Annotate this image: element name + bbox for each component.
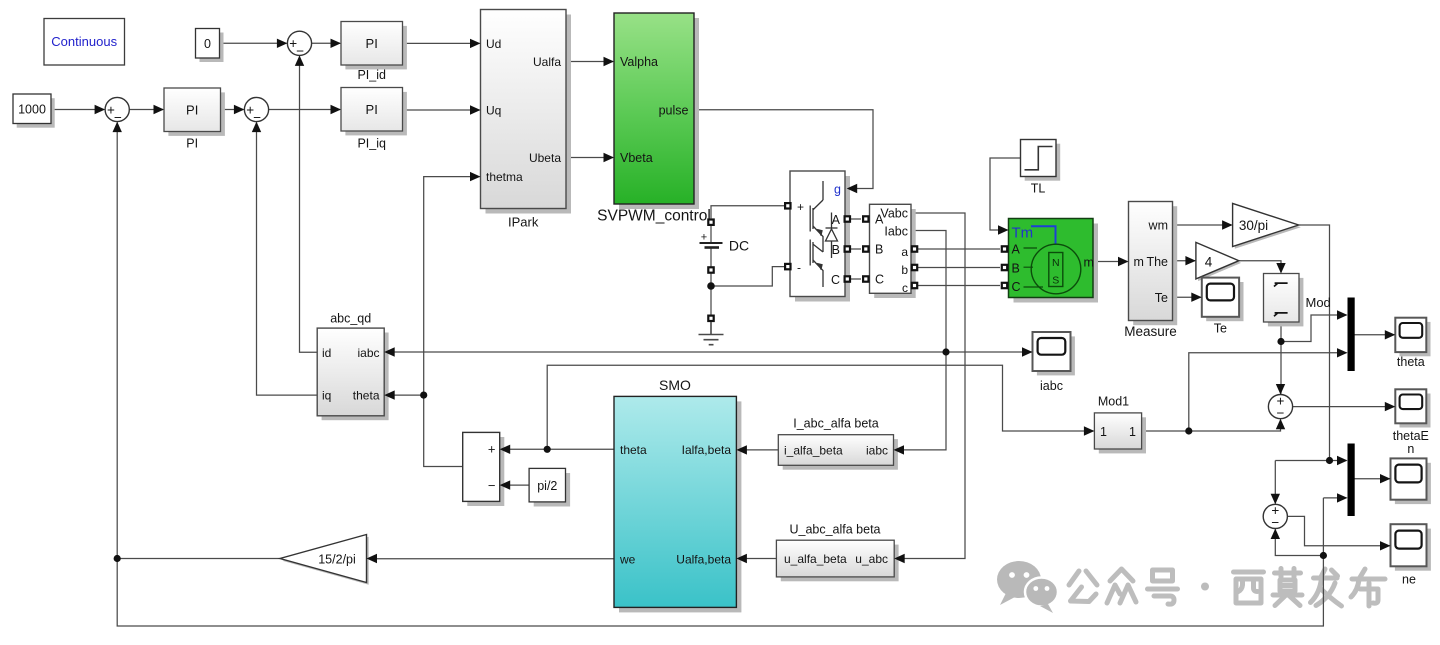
svg-text:The: The xyxy=(1146,255,1168,269)
wire: Measure The to gain 4 xyxy=(1173,260,1196,262)
svg-text:Ualfa,beta: Ualfa,beta xyxy=(676,552,731,566)
scope n xyxy=(1391,458,1431,504)
svg-text:ne: ne xyxy=(1402,573,1416,587)
PI block (speed PI controller) xyxy=(164,88,225,151)
wire: IPark Ualfa to SVPWM Valpha xyxy=(566,61,613,63)
arrow into n mux in2 xyxy=(1337,493,1348,502)
svg-text:DC: DC xyxy=(729,238,749,254)
wire: VI c to motor C xyxy=(918,285,1000,287)
svg-text:u_alfa_beta: u_alfa_beta xyxy=(784,552,847,566)
号 xyxy=(1153,570,1173,581)
subsystem Measure xyxy=(1124,202,1177,340)
step block TL (load torque) xyxy=(1021,140,1061,196)
mux theta (vertical bar) xyxy=(1348,298,1355,372)
svg-text:m: m xyxy=(1134,255,1144,269)
svg-text:N: N xyxy=(1052,257,1060,269)
wire: bottom estimated-speed feedback xyxy=(117,498,1323,626)
svg-text:c: c xyxy=(902,281,908,295)
公 xyxy=(1069,571,1097,585)
watermark WeChat icon xyxy=(997,561,1058,613)
莫 xyxy=(1275,569,1301,578)
scope thetaE xyxy=(1393,389,1431,456)
wire: TL to motor Tm xyxy=(990,158,1021,230)
wire: theta mux to theta scope xyxy=(1355,334,1395,336)
sum block Sum_ne xyxy=(1263,503,1287,530)
svg-text:Tm: Tm xyxy=(1012,225,1034,242)
wire: Mod junction down to Sum_thetaE plus xyxy=(1280,342,1282,394)
junction: theta riser split xyxy=(420,392,427,399)
arrow into PI_iq xyxy=(331,105,342,114)
wire: theta junction to abc_qd theta xyxy=(385,394,424,396)
svg-text:IPark: IPark xyxy=(508,215,539,230)
wire: PI to Sum2 xyxy=(221,109,244,111)
wire: DC minus to junction to inverter minus xyxy=(711,248,788,287)
arrow into Mod top xyxy=(1276,263,1285,274)
wire: IPark Ubeta to SVPWM Vbeta xyxy=(566,157,613,159)
junction: n signal node xyxy=(1326,457,1333,464)
svg-text:B: B xyxy=(875,243,883,257)
svg-text:PI: PI xyxy=(186,102,198,117)
sum block Sum_thetaE xyxy=(1268,393,1292,420)
arrow into IPark thetma xyxy=(470,172,481,181)
arrow into iabc scope xyxy=(1022,347,1033,356)
svg-text:15/2/pi: 15/2/pi xyxy=(318,552,356,566)
wire: n junction down to Sum_ne plus xyxy=(1274,461,1276,504)
block Mod (rotated) xyxy=(1264,274,1331,327)
wire: Measure wm to gain 30/pi xyxy=(1173,224,1232,226)
svg-text:n: n xyxy=(1407,442,1414,456)
junction: theta wire split to Mod1 xyxy=(544,446,551,453)
wire: inverter A to VI A xyxy=(851,218,861,220)
arrow into PI_id xyxy=(331,39,342,48)
sum rectangle (theta minus pi/2) xyxy=(463,432,505,506)
svg-text:−: − xyxy=(1271,515,1279,530)
wire: Mod1 junction to Sum_thetaE minus xyxy=(1189,420,1281,431)
wire: inverter C to VI C xyxy=(851,278,861,280)
arrow into Sum1 left xyxy=(95,105,106,114)
arrow into Measure m xyxy=(1118,257,1129,266)
arrow into thetaE scope xyxy=(1385,402,1396,411)
wire: DC plus lead to battery plate xyxy=(710,226,712,242)
svg-text:SMO: SMO xyxy=(659,377,691,393)
scope theta xyxy=(1395,318,1430,369)
arrow into U_abc u_abc xyxy=(894,554,905,563)
svg-text:we: we xyxy=(619,552,636,566)
subsystem I_abc_alfa beta xyxy=(778,417,898,470)
subsystem IPark (inverse Park transform) xyxy=(481,10,572,230)
wire: iabc distribution to abc_qd and iabc scope xyxy=(385,351,1031,353)
wire: Const0 to Sum_id xyxy=(220,42,287,44)
svg-text:iabc: iabc xyxy=(357,346,379,360)
arrow into sum rect minus xyxy=(500,480,511,489)
wire: theta riser to abc_qd and IPark thetma xyxy=(424,177,480,467)
watermark text: 公众号 · 西莫发布 xyxy=(1069,569,1385,607)
svg-text:Ud: Ud xyxy=(486,37,501,51)
wire: theta branch to Mod1 xyxy=(547,365,1093,449)
wire: id feedback riser into Sum_id xyxy=(300,56,318,352)
scope ne xyxy=(1391,524,1431,586)
svg-text:iq: iq xyxy=(322,389,331,403)
svg-text:+: + xyxy=(797,200,804,214)
PI block PI_id (d-axis current PI) xyxy=(341,22,407,83)
svg-text:I_abc_alfa beta: I_abc_alfa beta xyxy=(793,417,879,431)
arrow into SMO Ualfa,beta xyxy=(736,554,747,563)
arrow into Mod1 xyxy=(1084,426,1095,435)
wire: SMO we to gain 15/2/pi xyxy=(368,558,615,560)
junction: Mod output node xyxy=(1277,338,1284,345)
wire: Sum2 to PI_iq xyxy=(269,109,340,111)
arrow into Te scope xyxy=(1191,293,1202,302)
wire: 30/pi output down to n junction xyxy=(1299,225,1330,461)
arrow into Sum_ne bottom xyxy=(1271,529,1280,540)
svg-text:PI_iq: PI_iq xyxy=(357,137,386,151)
wire: n junction to n mux input 1 xyxy=(1275,460,1346,462)
svg-text:C: C xyxy=(875,273,884,287)
svg-text:Te: Te xyxy=(1155,291,1168,305)
ground symbol xyxy=(699,315,724,345)
svg-text:S: S xyxy=(1052,275,1059,287)
subsystem abc_qd (Park transform) xyxy=(317,312,388,421)
svg-text:theta: theta xyxy=(620,443,647,457)
wire: VI Vabc output down to U_abc xyxy=(898,213,965,559)
svg-text:Uq: Uq xyxy=(486,104,501,118)
sum block Sum_id (id error) xyxy=(287,31,311,58)
subsystem U_abc_alfa beta xyxy=(776,523,898,582)
arrow into IPark Ud xyxy=(470,39,481,48)
wire: gain 4 to Mod input xyxy=(1239,261,1281,273)
svg-text:g: g xyxy=(834,183,841,197)
wire: Measure Te to Te scope xyxy=(1173,296,1201,298)
block Mod1 xyxy=(1094,395,1146,454)
arrow into sum rect plus xyxy=(500,445,511,454)
PMSM motor block xyxy=(1001,219,1098,303)
arrow into abc_qd theta xyxy=(384,390,395,399)
svg-text:−: − xyxy=(296,44,304,59)
wire: SVPWM pulse to inverter g xyxy=(694,110,873,189)
dot xyxy=(1201,583,1209,591)
wire: n mux to n scope xyxy=(1355,478,1390,480)
svg-text:Iabc: Iabc xyxy=(884,225,908,239)
wire: inverter B to VI B xyxy=(851,248,861,250)
svg-text:A: A xyxy=(1012,243,1021,257)
wire: Sum_thetaE to thetaE scope xyxy=(1293,406,1395,408)
arrow into theta mux in2 xyxy=(1337,348,1348,357)
svg-text:TL: TL xyxy=(1031,182,1046,196)
arrow into gain 15/2/pi xyxy=(367,554,378,563)
svg-text:B: B xyxy=(1012,262,1020,276)
arrow into Sum2 left xyxy=(234,105,245,114)
arrow into SVPWM Vbeta xyxy=(604,153,615,162)
wire: PI_id to IPark Ud xyxy=(403,42,480,44)
wire: motor m to Measure xyxy=(1093,261,1128,263)
arrow into Sum_ne top xyxy=(1271,494,1280,505)
svg-text:1000: 1000 xyxy=(18,103,46,117)
wire: VI b to motor B xyxy=(918,267,1000,269)
svg-text:pulse: pulse xyxy=(659,103,689,117)
svg-text:C: C xyxy=(1012,280,1021,294)
arrow into Sum2 bottom xyxy=(252,122,261,133)
svg-text:thetma: thetma xyxy=(486,170,523,184)
arrow into theta mux in1 xyxy=(1337,310,1348,319)
svg-text:thetaE: thetaE xyxy=(1393,429,1429,443)
svg-text:pi/2: pi/2 xyxy=(537,479,557,493)
svg-text:A: A xyxy=(832,213,841,227)
wire: DC plus to inverter plus xyxy=(711,206,788,219)
svg-text:−: − xyxy=(488,478,496,493)
svg-text:theta: theta xyxy=(1397,355,1425,369)
svg-text:Measure: Measure xyxy=(1124,324,1177,339)
wire: iq feedback riser into Sum2 xyxy=(257,123,318,396)
wire: Sum_id to PI_id xyxy=(312,42,340,44)
wire: feedback junction up to n mux input 2 xyxy=(1323,497,1346,499)
wire: 1000 to Sum1 xyxy=(51,109,104,111)
arrow into I_abc iabc xyxy=(894,445,905,454)
inverter bridge (IGBT/Diode) xyxy=(784,171,851,302)
arrow into Sum1 bottom xyxy=(113,122,122,133)
svg-text:+: + xyxy=(701,232,707,244)
subsystem SMO (sliding mode observer) xyxy=(614,377,741,612)
svg-text:Vabc: Vabc xyxy=(880,207,908,221)
svg-text:−: − xyxy=(1277,405,1285,420)
wire: Mod1 junction up to theta mux input 2 xyxy=(1189,353,1347,431)
DC voltage source xyxy=(700,218,750,273)
VI measurement block (Vabc Iabc) xyxy=(862,204,918,298)
gain 30/pi xyxy=(1233,203,1301,248)
junction: DC minus node xyxy=(707,282,715,290)
svg-text:-: - xyxy=(797,261,801,275)
arrow into SMO Ialfa,beta xyxy=(736,445,747,454)
arrow into n mux in1 xyxy=(1337,456,1348,465)
arrow into gain 30/pi xyxy=(1222,220,1233,229)
junction: iabc tap xyxy=(942,348,949,355)
wire: U_abc u_alfa_beta to SMO xyxy=(737,558,776,560)
svg-text:abc_qd: abc_qd xyxy=(330,312,371,326)
mux n (vertical bar) xyxy=(1348,444,1355,517)
svg-text:PI: PI xyxy=(366,36,378,51)
arrow into IPark Uq xyxy=(470,105,481,114)
svg-text:1: 1 xyxy=(1100,425,1107,439)
constant block 0 (id reference) xyxy=(196,29,224,63)
wire: speed feedback riser into Sum1 xyxy=(116,123,118,559)
gain 4 xyxy=(1196,242,1241,281)
arrow into inverter g xyxy=(847,184,858,193)
junction: Mod1 output node xyxy=(1185,427,1192,434)
svg-text:SVPWM_control: SVPWM_control xyxy=(597,208,711,225)
svg-text:0: 0 xyxy=(204,37,211,51)
arrow into Sum_thetaE top xyxy=(1276,384,1285,395)
svg-text:Ialfa,beta: Ialfa,beta xyxy=(682,443,732,457)
wire: SMO theta to sum rect xyxy=(501,448,614,450)
西 xyxy=(1234,572,1264,603)
sum block Sum1 (speed error) xyxy=(105,97,129,124)
svg-text:PI_id: PI_id xyxy=(357,68,386,82)
svg-text:−: − xyxy=(114,110,122,125)
svg-text:m: m xyxy=(1084,256,1094,270)
svg-text:wm: wm xyxy=(1148,219,1168,233)
wire: Sum1 to PI xyxy=(129,109,163,111)
wire: VI Iabc output down to I_abc xyxy=(898,231,947,450)
svg-text:+: + xyxy=(488,442,496,457)
arrow into abc_qd iabc xyxy=(384,347,395,356)
arrow into ne scope xyxy=(1380,541,1391,550)
arrow into Sum_id bottom xyxy=(295,55,304,66)
constant block pi/2 xyxy=(529,468,570,506)
wire: Sum_ne output to ne scope xyxy=(1287,516,1389,545)
svg-text:Mod: Mod xyxy=(1306,295,1331,310)
wire: I_abc i_alfa_beta to SMO xyxy=(737,449,778,451)
wire: Mod junction to theta mux input 1 xyxy=(1281,315,1347,342)
wire: DC junction to ground xyxy=(710,286,712,318)
wire: Mod output to junction xyxy=(1280,322,1282,342)
svg-text:30/pi: 30/pi xyxy=(1239,218,1268,233)
arrow into SVPWM Valpha xyxy=(604,57,615,66)
发 xyxy=(1314,569,1338,578)
arrow into motor Tm xyxy=(998,225,1009,234)
wire: Mod1 output to junction xyxy=(1142,430,1189,432)
svg-text:iabc: iabc xyxy=(866,444,888,458)
wire: VI a to motor A xyxy=(918,248,1000,250)
wire: 15/2/pi output to feedback junction xyxy=(117,558,280,560)
svg-text:theta: theta xyxy=(353,389,380,403)
svg-text:i_alfa_beta: i_alfa_beta xyxy=(784,444,843,458)
svg-text:B: B xyxy=(832,243,840,257)
svg-text:Continuous: Continuous xyxy=(51,34,117,49)
svg-text:4: 4 xyxy=(1205,255,1213,270)
svg-text:C: C xyxy=(831,273,840,287)
sum block Sum2 (iq error) xyxy=(244,97,268,124)
svg-text:Mod1: Mod1 xyxy=(1098,395,1129,409)
svg-text:Valpha: Valpha xyxy=(620,55,658,69)
arrow into theta scope xyxy=(1385,330,1396,339)
scope Te xyxy=(1202,278,1244,336)
svg-text:−: − xyxy=(253,110,261,125)
junction: speed feedback at gain output xyxy=(114,555,121,562)
wire: PI_iq to IPark Uq xyxy=(403,109,480,111)
svg-text:Vbeta: Vbeta xyxy=(620,151,653,165)
arrow into PI xyxy=(154,105,165,114)
svg-text:PI: PI xyxy=(186,137,198,151)
arrowheads xyxy=(95,39,1396,564)
布 xyxy=(1351,569,1385,597)
arrow into n scope xyxy=(1380,474,1391,483)
junction: estimated speed node xyxy=(1320,552,1327,559)
svg-text:iabc: iabc xyxy=(1040,379,1063,393)
svg-text:U_abc_alfa beta: U_abc_alfa beta xyxy=(789,523,880,537)
svg-text:Te: Te xyxy=(1214,322,1227,336)
constant block 1000 (speed reference) xyxy=(13,94,55,128)
svg-text:id: id xyxy=(322,346,331,360)
svg-text:u_abc: u_abc xyxy=(855,552,888,566)
scope iabc xyxy=(1033,332,1075,393)
block Continuous (solver annotation) xyxy=(44,19,125,66)
svg-text:PI: PI xyxy=(366,102,378,117)
svg-text:Ualfa: Ualfa xyxy=(533,55,561,69)
wire: pi/2 to sum rect minus xyxy=(501,484,529,486)
arrow into Sum_thetaE bottom xyxy=(1276,419,1285,430)
wire: feedback junction to Sum_ne minus xyxy=(1275,529,1323,555)
subsystem SVPWM_control xyxy=(597,13,711,225)
gain 15/2/pi (left pointing) xyxy=(280,535,369,585)
svg-text:Ubeta: Ubeta xyxy=(529,151,561,165)
svg-text:1: 1 xyxy=(1129,425,1136,439)
svg-text:a: a xyxy=(901,245,908,259)
众 xyxy=(1110,569,1133,581)
arrow into gain 4 xyxy=(1185,256,1196,265)
arrow into Sum_id left xyxy=(277,39,288,48)
PI block PI_iq (q-axis current PI) xyxy=(341,88,407,151)
svg-text:b: b xyxy=(901,263,908,277)
